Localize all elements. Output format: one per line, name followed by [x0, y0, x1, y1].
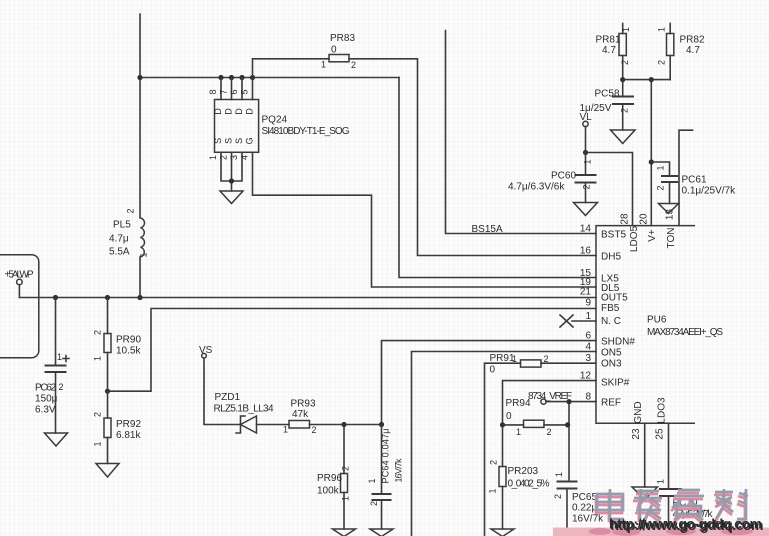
- svg-text:2: 2: [341, 466, 351, 471]
- svg-text:21: 21: [580, 287, 592, 298]
- resistor PR81: [596, 27, 632, 65]
- svg-text:D: D: [213, 108, 223, 115]
- svg-text:6: 6: [229, 89, 239, 94]
- pin 3 ON3: [585, 353, 622, 370]
- wire PC61 branch: [651, 162, 669, 204]
- svg-text:28: 28: [620, 213, 631, 225]
- inductor PL5: [109, 208, 149, 257]
- capacitor PC61: [656, 165, 737, 196]
- svg-text:2: 2: [656, 185, 666, 190]
- ground PC58: [611, 130, 636, 144]
- resistor PR82: [657, 27, 705, 65]
- svg-text:MAX8734AEEI+_QS: MAX8734AEEI+_QS: [647, 327, 723, 338]
- svg-text:PR83: PR83: [330, 33, 355, 44]
- wire N.C stub: [572, 320, 596, 322]
- svg-text:N. C: N. C: [601, 316, 621, 327]
- svg-text:1: 1: [208, 155, 218, 160]
- svg-text:5.5A: 5.5A: [109, 247, 130, 258]
- svg-text:13: 13: [665, 209, 676, 221]
- wire REF net: [546, 401, 596, 403]
- svg-text:100k: 100k: [317, 486, 340, 497]
- resistor PR92: [93, 391, 142, 463]
- svg-text:http://www.go-gddq.com: http://www.go-gddq.com: [609, 516, 762, 532]
- svg-text:4.7: 4.7: [686, 45, 700, 56]
- ground PR203: [491, 529, 514, 536]
- wire TON net: [679, 130, 693, 225]
- svg-text:ON5: ON5: [601, 348, 622, 359]
- svg-text:D: D: [245, 108, 255, 115]
- junction node REF: [566, 399, 571, 404]
- svg-text:SHDN#: SHDN#: [601, 337, 635, 348]
- wire FB5 net: [108, 309, 597, 392]
- junction node zener chain: [341, 422, 384, 427]
- svg-text:D: D: [234, 108, 244, 115]
- node VS: [199, 345, 213, 358]
- svg-text:PC65: PC65: [572, 492, 597, 503]
- svg-text:23: 23: [631, 428, 642, 440]
- svg-text:2: 2: [547, 427, 552, 437]
- svg-text:47k: 47k: [292, 409, 309, 420]
- ground PR92: [96, 464, 119, 478]
- svg-text:S: S: [213, 138, 223, 144]
- wire GND pin 23: [644, 423, 646, 487]
- wire PQ24 gate to DL5: [253, 152, 597, 287]
- svg-text:1: 1: [321, 60, 326, 70]
- wire PR83 to DH5 net: [349, 59, 596, 256]
- svg-text:1: 1: [621, 27, 631, 32]
- resistor PR96: [317, 466, 351, 501]
- svg-text:1: 1: [656, 165, 666, 170]
- svg-text:PZD1: PZD1: [215, 392, 241, 403]
- svg-text:25: 25: [655, 428, 666, 440]
- svg-text:14: 14: [580, 224, 592, 235]
- svg-text:10.5k: 10.5k: [116, 346, 141, 357]
- svg-text:9: 9: [585, 298, 591, 309]
- svg-text:1: 1: [139, 252, 149, 257]
- svg-text:REF: REF: [601, 398, 621, 409]
- capacitor PC70: [656, 479, 714, 520]
- svg-text:1: 1: [341, 496, 351, 501]
- wire BST5 net BS15A: [446, 31, 597, 234]
- svg-text:2: 2: [59, 382, 64, 392]
- pin 21 OUT5: [580, 287, 628, 304]
- wire PR94 row: [503, 424, 568, 426]
- svg-text:PL5: PL5: [113, 220, 131, 231]
- svg-text:TON: TON: [666, 228, 677, 249]
- svg-text:PU6: PU6: [647, 315, 667, 326]
- wire REF to PR94/PC65 vertical: [568, 402, 570, 482]
- svg-text:8734_VREF: 8734_VREF: [528, 391, 572, 402]
- svg-text:VL: VL: [580, 112, 593, 123]
- capacitor PC58: [580, 89, 635, 115]
- svg-text:1: 1: [512, 354, 517, 364]
- wire PR93 to SHDN node: [310, 424, 382, 426]
- svg-text:RLZ5.1B_LL34: RLZ5.1B_LL34: [214, 404, 274, 415]
- svg-text:BST5: BST5: [601, 230, 626, 241]
- resistor PR91: [490, 353, 549, 376]
- svg-text:S: S: [224, 138, 234, 144]
- wire SKIP# net: [503, 381, 597, 425]
- svg-text:4: 4: [240, 155, 250, 160]
- svg-text:8: 8: [585, 392, 591, 403]
- svg-text:D: D: [224, 108, 234, 115]
- junction node FB5 divider: [105, 389, 110, 394]
- pin 16 DH5: [580, 246, 622, 263]
- wire zener to PR93: [257, 424, 290, 426]
- svg-text:0: 0: [490, 365, 496, 376]
- pin 13 TON: [665, 209, 678, 249]
- ground PC64: [370, 529, 393, 536]
- pin 12 SKIP#: [580, 371, 630, 389]
- svg-text:LDO5: LDO5: [629, 226, 640, 253]
- junction node source bar: [229, 178, 234, 183]
- capacitor PC60: [508, 159, 597, 192]
- svg-text:PR90: PR90: [116, 335, 141, 346]
- svg-text:2: 2: [657, 60, 667, 65]
- wire VS to zener chain: [204, 358, 241, 425]
- connector +5ALWP: [0, 255, 39, 358]
- capacitor PC65: [553, 472, 604, 529]
- svg-text:PC58: PC58: [595, 89, 620, 100]
- svg-text:1: 1: [585, 311, 591, 322]
- diode PZD1 zener: [214, 392, 274, 433]
- ground PC60: [574, 203, 598, 216]
- svg-text:DH5: DH5: [601, 252, 621, 263]
- svg-text:PC61: PC61: [682, 175, 707, 186]
- svg-text:PR94: PR94: [506, 398, 531, 409]
- resistor PR203: [488, 460, 550, 494]
- resistor PR94: [506, 398, 552, 437]
- svg-text:2: 2: [219, 155, 229, 160]
- svg-text:2: 2: [544, 354, 549, 364]
- svg-text:PR93: PR93: [291, 399, 316, 410]
- pin 8 REF: [585, 392, 621, 409]
- svg-text:2: 2: [489, 460, 499, 465]
- svg-text:1: 1: [367, 478, 377, 483]
- svg-text:PR96: PR96: [317, 473, 342, 484]
- wire PQ24 drain pins: [221, 78, 253, 100]
- resistor PR93: [283, 399, 317, 436]
- svg-text:4.7μ/6.3V/6k: 4.7μ/6.3V/6k: [508, 182, 565, 193]
- svg-text:VS: VS: [199, 345, 213, 356]
- svg-text:PQ24: PQ24: [262, 115, 288, 126]
- svg-text:1: 1: [583, 159, 593, 164]
- svg-text:12: 12: [580, 371, 592, 382]
- wire PR203 vertical: [502, 425, 504, 529]
- pin 28 LDO5: [620, 213, 641, 252]
- wire LDO3 pin 25 to PC70: [668, 423, 670, 532]
- wire PC60 leads: [585, 153, 587, 203]
- svg-text:PR82: PR82: [680, 35, 705, 46]
- pin 6 SHDN#: [585, 331, 635, 348]
- svg-text:8: 8: [208, 89, 218, 94]
- svg-text:2: 2: [369, 501, 379, 506]
- node N.C no-connect X: [560, 315, 573, 327]
- transistor PQ24: [208, 89, 350, 160]
- svg-text:6.3V: 6.3V: [35, 405, 56, 416]
- svg-text:4.7: 4.7: [602, 45, 616, 56]
- svg-text:GND: GND: [633, 401, 644, 423]
- pin 4 ON5: [585, 342, 622, 359]
- junction node y79.6: [620, 77, 654, 82]
- svg-text:0: 0: [506, 411, 512, 422]
- svg-text:2: 2: [620, 108, 630, 113]
- svg-text:3: 3: [585, 353, 591, 364]
- svg-text:PC60: PC60: [551, 171, 576, 182]
- junction node drain bus: [137, 75, 255, 80]
- svg-text:1: 1: [57, 352, 62, 362]
- op-amp controller IC PU6 MAX8734: [596, 226, 723, 424]
- ground PQ24 source: [220, 191, 243, 204]
- wire LX5 net: [399, 78, 596, 278]
- svg-text:V+: V+: [647, 229, 658, 242]
- wire PR83 branch left: [253, 59, 330, 78]
- svg-text:0_0402_5%: 0_0402_5%: [508, 479, 550, 490]
- svg-text:20: 20: [639, 213, 650, 225]
- node BS15A label: [472, 224, 503, 235]
- svg-text:16: 16: [580, 246, 592, 257]
- wire ON5 net: [412, 352, 597, 536]
- svg-text:16V/7k: 16V/7k: [394, 458, 404, 483]
- svg-text:2: 2: [93, 330, 103, 335]
- svg-text:LDO3: LDO3: [657, 397, 668, 424]
- wire VL to LDO5: [586, 127, 633, 226]
- watermark: [553, 489, 769, 536]
- svg-text:1: 1: [554, 472, 564, 477]
- wire PQ24 source pins to ground bar: [221, 152, 242, 191]
- svg-text:2: 2: [126, 208, 136, 213]
- svg-text:1: 1: [516, 427, 521, 437]
- svg-text:PC62: PC62: [35, 383, 56, 394]
- pin 15 LX5: [580, 268, 619, 285]
- wire PR82 leads: [669, 23, 671, 79]
- wire OUT5 bus y297: [19, 285, 596, 298]
- ground PC62: [45, 433, 68, 446]
- svg-text:150μ: 150μ: [35, 394, 58, 405]
- svg-text:2: 2: [620, 60, 630, 65]
- svg-text:2: 2: [553, 494, 563, 499]
- ground PC65: [556, 529, 579, 536]
- wire SHDN# net: [382, 341, 597, 425]
- capacitor PC62: [35, 298, 69, 434]
- svg-text:SI4810BDY-T1-E_SOG: SI4810BDY-T1-E_SOG: [262, 126, 350, 137]
- svg-text:3: 3: [229, 155, 239, 160]
- svg-text:2: 2: [351, 60, 356, 70]
- svg-text:5: 5: [240, 89, 250, 94]
- ground PR96: [333, 529, 356, 536]
- svg-text:1: 1: [488, 488, 498, 493]
- svg-text:2: 2: [312, 425, 317, 435]
- svg-text:2: 2: [582, 184, 592, 189]
- svg-text:G: G: [245, 137, 255, 144]
- svg-text:PR203: PR203: [508, 466, 539, 477]
- wire PR81 leads: [622, 23, 624, 79]
- junction node V+ to PC61: [649, 159, 654, 164]
- wire PR81-PR82 join y79.6: [623, 79, 671, 81]
- svg-text:1: 1: [93, 356, 103, 361]
- wire input vertical to PL5: [139, 14, 141, 218]
- node VL: [580, 112, 593, 127]
- svg-text:BS15A: BS15A: [472, 224, 503, 235]
- svg-text:0: 0: [331, 45, 337, 56]
- svg-text:S: S: [234, 138, 244, 144]
- pin 9 FB5: [585, 298, 619, 315]
- wire ON3 net: [485, 363, 597, 536]
- svg-text:0.22μ: 0.22μ: [572, 503, 597, 514]
- pin 20 V+: [639, 213, 659, 242]
- junction node PR94: [500, 422, 570, 427]
- junction node OUT5 bus: [53, 295, 143, 300]
- wire V+ vertical: [650, 80, 652, 226]
- svg-text:ON3: ON3: [601, 359, 622, 370]
- capacitor PC64: [367, 429, 404, 507]
- wire PR96 vertical: [343, 425, 345, 530]
- svg-text:1: 1: [93, 441, 103, 446]
- junction node VL line: [583, 150, 588, 155]
- wire drain bus y77: [140, 77, 399, 79]
- svg-text:PC64 0.047μ: PC64 0.047μ: [381, 429, 391, 484]
- wire PC64 vertical: [381, 425, 383, 530]
- pin 19 DL5: [580, 277, 620, 294]
- wire PL5 bottom to bus: [139, 257, 141, 298]
- svg-text:6.81k: 6.81k: [116, 430, 141, 441]
- svg-text:1: 1: [283, 425, 288, 435]
- ground GND pin: [632, 487, 658, 500]
- node 8734_VREF: [528, 391, 572, 404]
- svg-text:4: 4: [585, 342, 591, 353]
- resistor PR83: [321, 33, 356, 70]
- svg-text:1: 1: [657, 27, 667, 32]
- svg-text:OUT5: OUT5: [601, 293, 628, 304]
- wire PC58 leads: [622, 80, 624, 130]
- pin 1 N.C: [585, 311, 621, 327]
- svg-text:6: 6: [585, 331, 591, 342]
- svg-text:PR92: PR92: [116, 419, 141, 430]
- ground PC61: [659, 204, 679, 214]
- resistor PR90: [93, 298, 142, 392]
- svg-text:PR81: PR81: [596, 35, 621, 46]
- svg-text:FB5: FB5: [601, 303, 620, 314]
- pin 23 GND: [631, 401, 644, 439]
- pin 25 LDO3: [655, 397, 668, 440]
- svg-text:16V/7k: 16V/7k: [572, 514, 604, 525]
- svg-text:SKIP#: SKIP#: [601, 378, 630, 389]
- pin 14 BST5: [580, 224, 627, 241]
- svg-text:4.7μ: 4.7μ: [109, 234, 129, 245]
- svg-text:1: 1: [656, 479, 666, 484]
- svg-text:7: 7: [219, 89, 229, 94]
- svg-text:2: 2: [93, 412, 103, 417]
- svg-text:0.1μ/25V/7k: 0.1μ/25V/7k: [682, 186, 737, 197]
